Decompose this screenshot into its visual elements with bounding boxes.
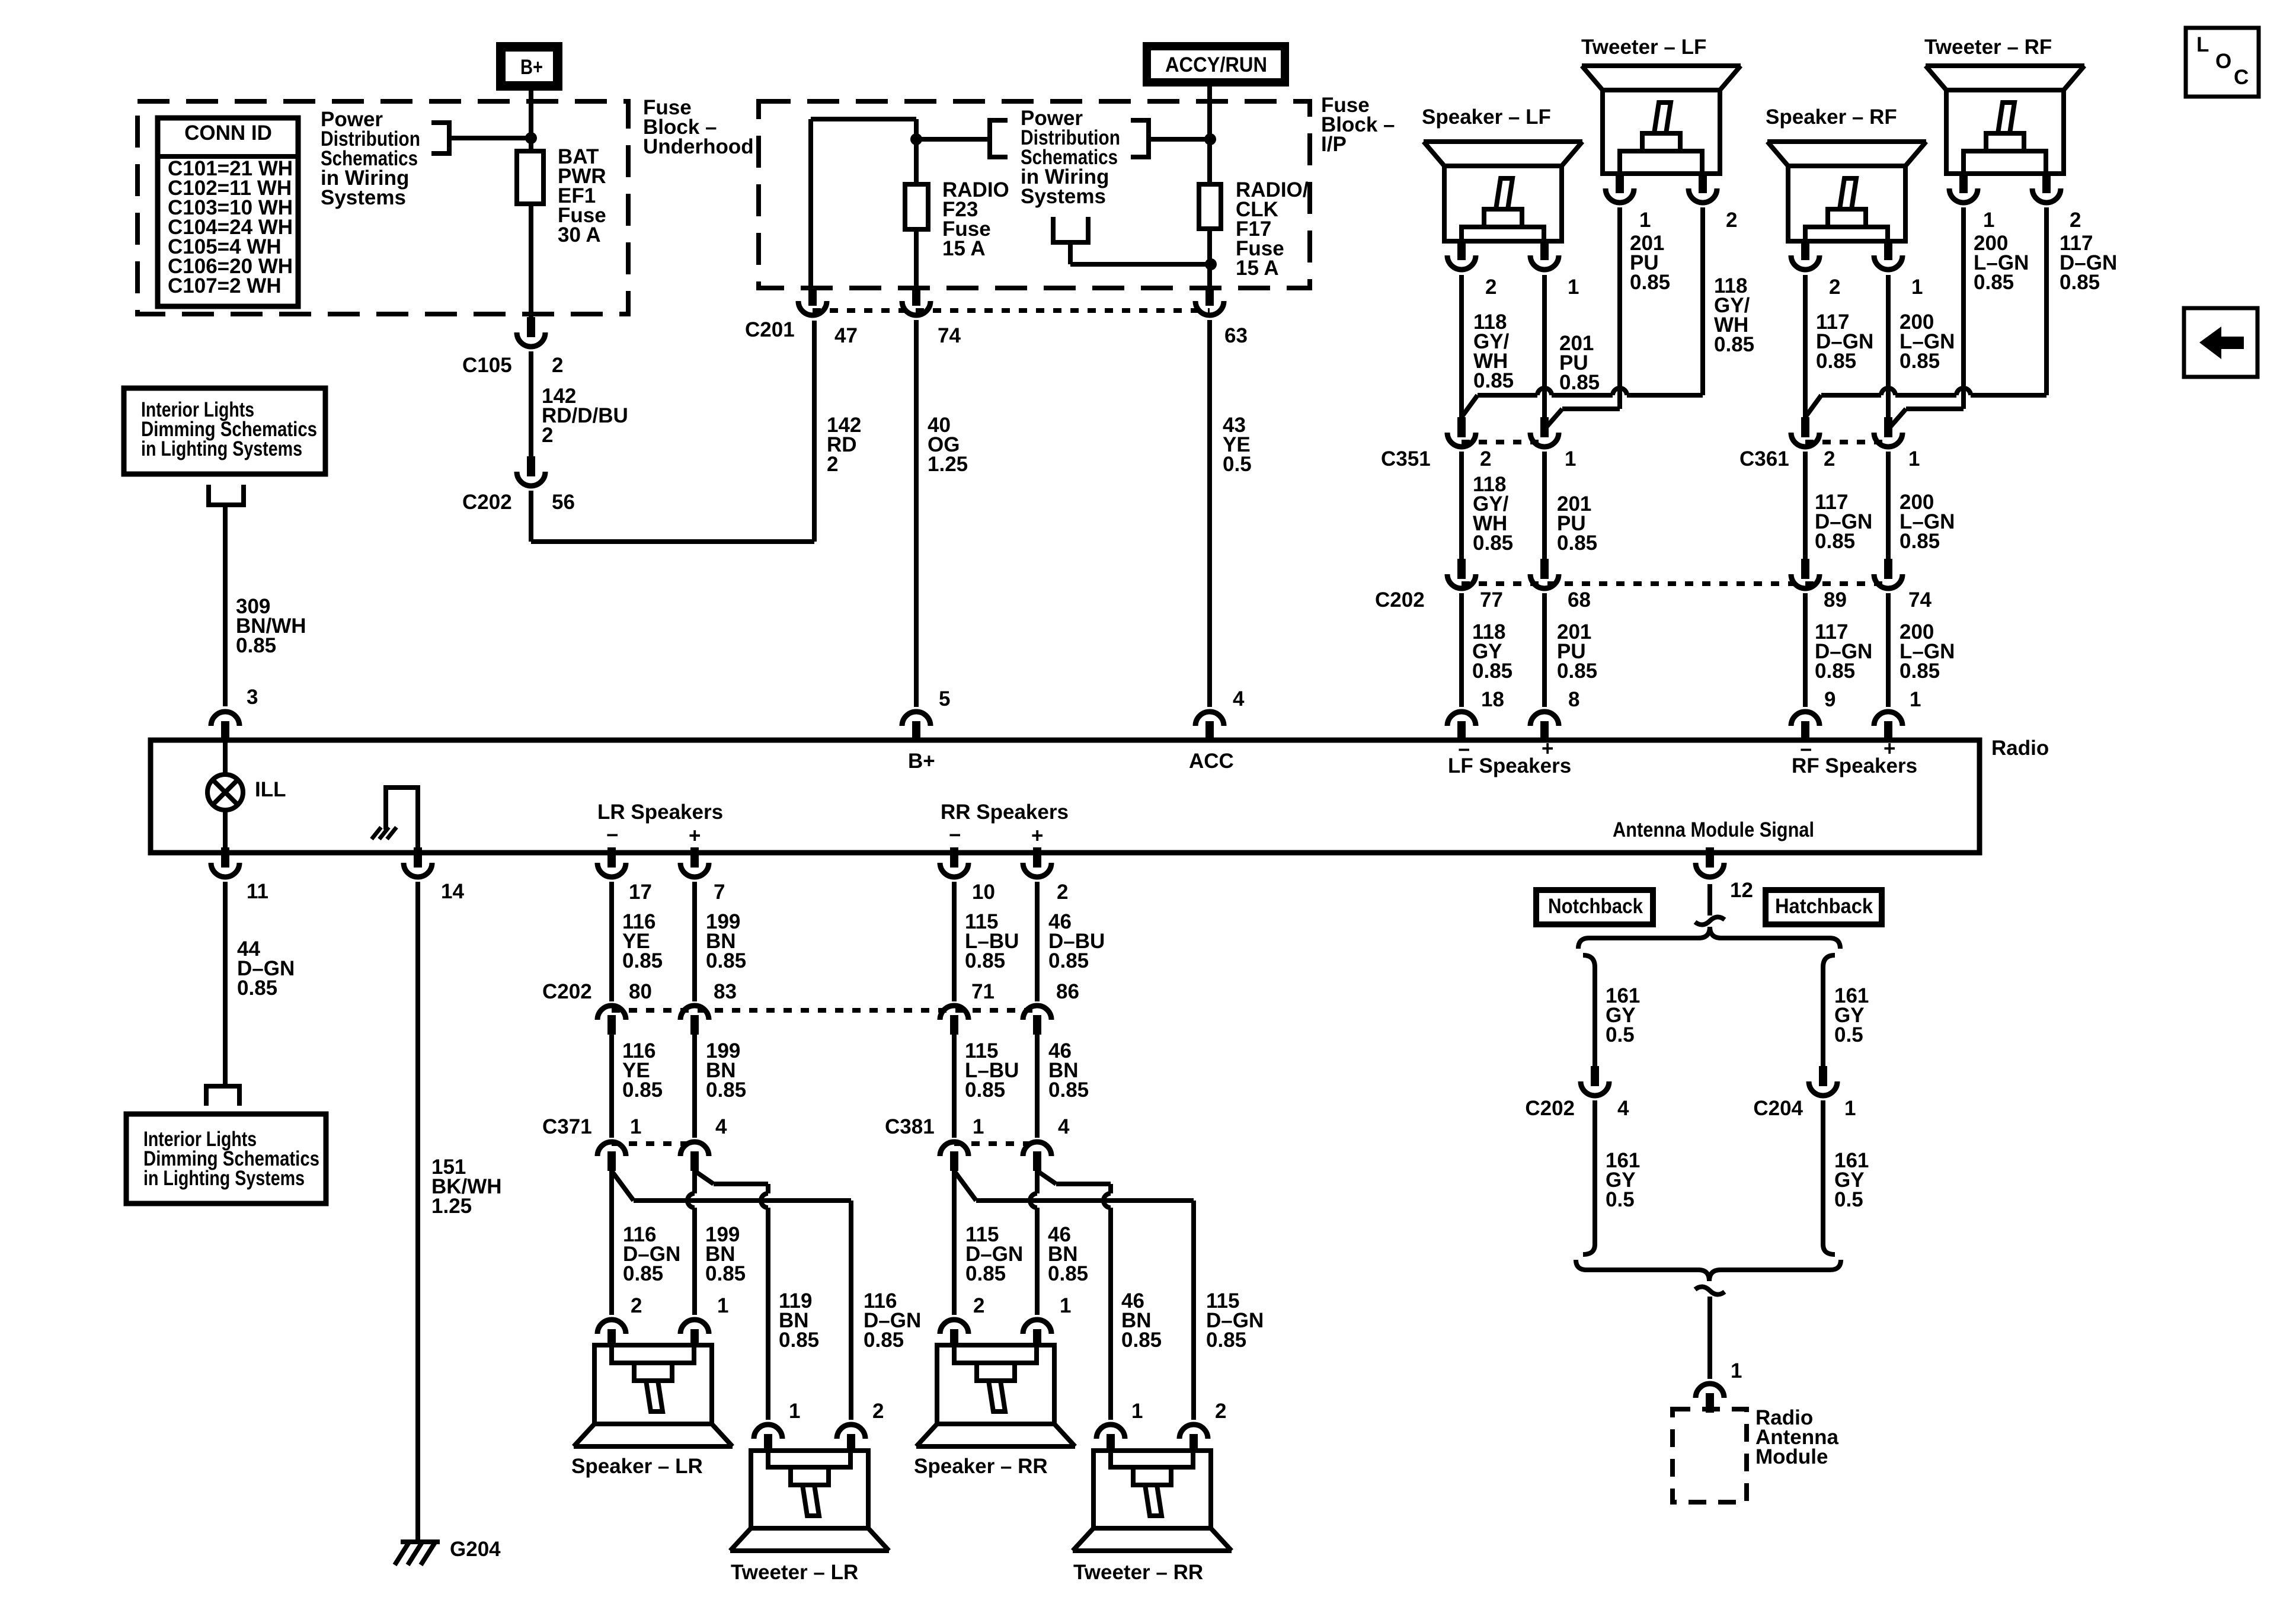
svg-text:0.85: 0.85 (1472, 660, 1512, 683)
svg-text:LR Speakers: LR Speakers (597, 801, 723, 824)
svg-text:1: 1 (1568, 276, 1579, 299)
svg-text:B+: B+ (908, 750, 935, 773)
svg-text:68: 68 (1568, 588, 1591, 612)
svg-text:0.5: 0.5 (1606, 1023, 1635, 1046)
svg-text:74: 74 (938, 324, 961, 347)
svg-text:0.85: 0.85 (1557, 660, 1597, 683)
svg-text:−: − (1458, 738, 1470, 761)
svg-text:+: + (1542, 737, 1553, 760)
svg-text:0.85: 0.85 (1815, 530, 1855, 553)
svg-text:1: 1 (1910, 688, 1921, 711)
svg-text:0.85: 0.85 (622, 949, 663, 972)
svg-text:2: 2 (1824, 447, 1835, 470)
svg-text:2: 2 (827, 453, 838, 476)
svg-text:0.85: 0.85 (1473, 369, 1514, 392)
svg-text:1: 1 (1060, 1294, 1071, 1317)
svg-text:Tweeter – RF: Tweeter – RF (1924, 36, 2052, 59)
svg-text:47: 47 (834, 324, 858, 347)
svg-text:0.5: 0.5 (1606, 1188, 1635, 1211)
svg-text:9: 9 (1824, 688, 1835, 711)
svg-text:Underhood: Underhood (643, 135, 754, 158)
svg-text:−: − (949, 824, 961, 847)
svg-text:89: 89 (1824, 588, 1847, 612)
svg-text:0.85: 0.85 (864, 1329, 904, 1352)
svg-text:1: 1 (1731, 1359, 1742, 1382)
svg-text:74: 74 (1908, 588, 1932, 612)
svg-text:0.85: 0.85 (1048, 1262, 1088, 1285)
svg-text:17: 17 (629, 881, 652, 904)
svg-text:1: 1 (1639, 209, 1651, 232)
svg-text:0.5: 0.5 (1834, 1188, 1863, 1211)
svg-text:C202: C202 (1525, 1097, 1575, 1120)
svg-text:+: + (1031, 824, 1043, 847)
svg-text:C371: C371 (542, 1115, 592, 1138)
svg-text:O: O (2215, 50, 2231, 73)
svg-text:C361: C361 (1739, 447, 1789, 470)
svg-text:in Lighting Systems: in Lighting Systems (143, 1167, 305, 1190)
svg-text:ACCY/RUN: ACCY/RUN (1165, 53, 1267, 76)
svg-text:0.85: 0.85 (1714, 333, 1754, 356)
svg-text:0.85: 0.85 (1900, 530, 1940, 553)
svg-text:0.85: 0.85 (1974, 271, 2014, 294)
svg-text:Tweeter – LR: Tweeter – LR (731, 1561, 858, 1584)
svg-text:3: 3 (247, 686, 258, 709)
svg-text:C204: C204 (1753, 1097, 1803, 1120)
svg-text:0.85: 0.85 (236, 634, 276, 657)
svg-text:2: 2 (2070, 209, 2081, 232)
svg-text:11: 11 (247, 880, 268, 903)
svg-text:1: 1 (717, 1294, 728, 1317)
svg-text:B+: B+ (520, 56, 543, 79)
svg-text:Speaker – RR: Speaker – RR (914, 1455, 1048, 1478)
svg-text:30 A: 30 A (558, 223, 601, 247)
svg-text:10: 10 (972, 881, 995, 904)
svg-text:2: 2 (973, 1294, 984, 1317)
svg-text:2: 2 (552, 354, 563, 377)
svg-text:+: + (1884, 737, 1895, 760)
svg-text:56: 56 (552, 491, 575, 514)
svg-text:1: 1 (630, 1115, 641, 1138)
svg-text:Systems: Systems (1021, 185, 1106, 208)
svg-text:0.85: 0.85 (622, 1078, 663, 1102)
svg-text:C107=2 WH: C107=2 WH (168, 274, 282, 297)
svg-text:77: 77 (1480, 588, 1503, 612)
svg-text:2: 2 (1829, 276, 1840, 299)
svg-text:L: L (2196, 33, 2209, 56)
svg-text:0.85: 0.85 (1559, 371, 1600, 394)
svg-text:0.85: 0.85 (706, 949, 746, 972)
svg-text:2: 2 (1480, 447, 1491, 470)
svg-text:0.85: 0.85 (779, 1329, 819, 1352)
svg-text:2: 2 (631, 1294, 642, 1317)
svg-text:15 A: 15 A (1236, 257, 1279, 280)
svg-text:Systems: Systems (321, 186, 406, 209)
svg-text:8: 8 (1568, 688, 1579, 711)
svg-text:63: 63 (1224, 324, 1248, 347)
svg-text:71: 71 (971, 980, 994, 1003)
svg-text:86: 86 (1056, 980, 1079, 1003)
svg-text:C105: C105 (462, 354, 512, 377)
svg-text:G204: G204 (450, 1538, 501, 1561)
svg-text:I/P: I/P (1321, 133, 1347, 156)
svg-text:Module: Module (1755, 1445, 1828, 1468)
svg-text:−: − (1800, 738, 1812, 761)
svg-text:+: + (689, 824, 701, 847)
svg-text:0.85: 0.85 (623, 1262, 663, 1285)
svg-text:C: C (2234, 66, 2249, 89)
svg-text:2: 2 (872, 1400, 884, 1423)
svg-text:0.85: 0.85 (965, 1262, 1006, 1285)
svg-text:RR Speakers: RR Speakers (941, 801, 1069, 824)
svg-text:1: 1 (973, 1115, 984, 1138)
svg-text:5: 5 (939, 687, 950, 710)
svg-text:2: 2 (1057, 881, 1068, 904)
svg-text:1.25: 1.25 (431, 1195, 472, 1218)
svg-text:1: 1 (1844, 1097, 1856, 1120)
svg-text:0.85: 0.85 (965, 949, 1005, 972)
svg-text:Speaker – LF: Speaker – LF (1422, 105, 1551, 129)
svg-text:Antenna Module Signal: Antenna Module Signal (1613, 818, 1814, 841)
svg-text:4: 4 (1058, 1115, 1070, 1138)
svg-text:0.85: 0.85 (1473, 532, 1513, 555)
svg-text:0.85: 0.85 (2060, 271, 2100, 294)
svg-text:Notchback: Notchback (1548, 895, 1643, 918)
svg-text:0.85: 0.85 (1900, 350, 1940, 373)
svg-text:Radio: Radio (1991, 737, 2049, 760)
svg-text:1: 1 (1911, 276, 1923, 299)
svg-text:2: 2 (1485, 276, 1496, 299)
svg-text:0.85: 0.85 (237, 977, 277, 1000)
svg-text:0.85: 0.85 (1815, 660, 1855, 683)
svg-text:0.85: 0.85 (705, 1262, 746, 1285)
svg-text:Tweeter – LF: Tweeter – LF (1581, 36, 1706, 59)
svg-text:1: 1 (789, 1400, 800, 1423)
svg-text:0.85: 0.85 (1630, 271, 1670, 294)
svg-text:2: 2 (542, 424, 553, 447)
svg-text:15 A: 15 A (942, 237, 986, 260)
svg-text:C202: C202 (1375, 588, 1425, 612)
svg-text:in Lighting Systems: in Lighting Systems (141, 437, 302, 460)
svg-text:1: 1 (1983, 209, 1994, 232)
svg-text:1: 1 (1908, 447, 1920, 470)
svg-text:0.85: 0.85 (706, 1078, 746, 1102)
svg-text:0.85: 0.85 (1048, 1078, 1089, 1102)
svg-text:1: 1 (1131, 1400, 1143, 1423)
svg-text:4: 4 (1617, 1097, 1629, 1120)
svg-text:Speaker – RF: Speaker – RF (1766, 105, 1897, 129)
svg-text:4: 4 (715, 1115, 727, 1138)
svg-text:C202: C202 (542, 980, 592, 1003)
svg-text:0.85: 0.85 (965, 1078, 1005, 1102)
svg-text:0.85: 0.85 (1816, 350, 1856, 373)
svg-text:0.85: 0.85 (1121, 1329, 1162, 1352)
svg-text:C351: C351 (1381, 447, 1431, 470)
svg-text:0.5: 0.5 (1834, 1023, 1863, 1046)
svg-text:12: 12 (1730, 879, 1753, 902)
svg-text:Speaker – LR: Speaker – LR (571, 1455, 703, 1478)
svg-text:C381: C381 (885, 1115, 935, 1138)
svg-text:2: 2 (1215, 1400, 1226, 1423)
svg-text:2: 2 (1726, 209, 1737, 232)
svg-text:0.5: 0.5 (1223, 453, 1252, 476)
svg-text:Tweeter – RR: Tweeter – RR (1073, 1561, 1203, 1584)
svg-text:1.25: 1.25 (928, 453, 968, 476)
svg-text:0.85: 0.85 (1048, 949, 1089, 972)
svg-text:83: 83 (714, 980, 737, 1003)
svg-text:80: 80 (629, 980, 652, 1003)
svg-text:ILL: ILL (255, 778, 286, 801)
svg-text:RD/D/BU: RD/D/BU (542, 404, 628, 427)
svg-text:C202: C202 (462, 491, 512, 514)
svg-text:C201: C201 (745, 318, 795, 341)
svg-text:0.85: 0.85 (1557, 532, 1597, 555)
svg-text:14: 14 (441, 880, 464, 903)
svg-text:0.85: 0.85 (1206, 1329, 1246, 1352)
svg-text:Hatchback: Hatchback (1775, 895, 1873, 918)
svg-text:18: 18 (1481, 688, 1504, 711)
svg-text:0.85: 0.85 (1900, 660, 1940, 683)
svg-text:7: 7 (714, 881, 725, 904)
svg-text:1: 1 (1565, 447, 1576, 470)
svg-text:4: 4 (1233, 687, 1245, 710)
svg-text:−: − (606, 824, 618, 847)
svg-text:ACC: ACC (1189, 750, 1234, 773)
svg-text:CONN ID: CONN ID (184, 121, 272, 145)
